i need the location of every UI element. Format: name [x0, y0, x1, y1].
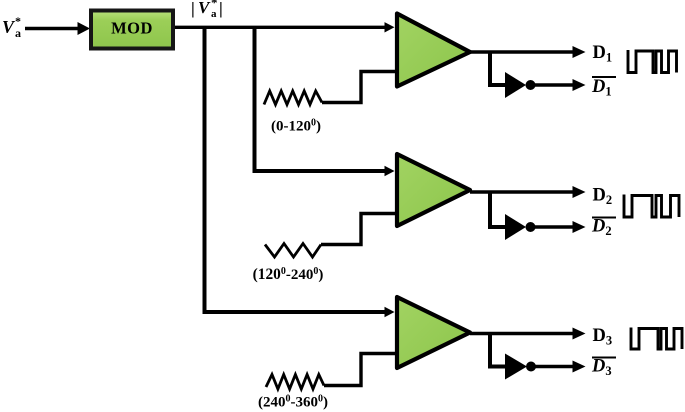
- wire branch to inverter N1: [490, 52, 505, 85]
- svg-text:D2: D2: [593, 186, 613, 208]
- arrowhead into U1: [385, 22, 395, 32]
- carrier source W2 zigzag: [265, 244, 321, 258]
- wire N1 output: [534, 83, 573, 86]
- arrowhead into MOD: [78, 22, 91, 35]
- op-amp U3 comparator: [397, 297, 470, 368]
- arrowhead D1bar: [573, 79, 586, 91]
- svg-text:V: V: [2, 17, 16, 37]
- arrowhead D3: [573, 328, 586, 340]
- wire branch vertical to comparator U2: [255, 27, 386, 171]
- svg-text:*: *: [211, 0, 218, 10]
- waveform icon 1: [628, 50, 677, 73]
- inverter N3: [505, 354, 527, 380]
- node Va* input label: [2, 14, 21, 40]
- wire U2 output D2: [470, 190, 573, 193]
- MOD block: [91, 11, 173, 49]
- label D2bar: [591, 217, 616, 239]
- arrowhead D3bar: [573, 361, 586, 373]
- svg-text:V: V: [198, 0, 211, 17]
- arrowhead D2bar: [573, 221, 586, 233]
- wire MOD output rail: [175, 26, 385, 29]
- wire W1 to U1 lower input: [322, 72, 397, 103]
- op-amp U2 comparator: [397, 154, 470, 226]
- svg-text:MOD: MOD: [111, 19, 153, 38]
- svg-text:(2400-3600): (2400-3600): [258, 394, 328, 411]
- wire branch to inverter N2: [490, 192, 505, 227]
- svg-text:(1200-2400): (1200-2400): [253, 266, 324, 283]
- svg-text:(0-1200): (0-1200): [271, 118, 321, 135]
- wire W3 to U3 lower input: [324, 354, 397, 386]
- carrier source W1 zigzag: [264, 91, 322, 105]
- wire input to MOD: [25, 27, 79, 30]
- svg-text:D3: D3: [593, 326, 613, 348]
- wire trunk vertical to comparator U3: [205, 27, 386, 312]
- wire N2 output: [534, 225, 573, 228]
- op-amp U1 comparator: [397, 14, 470, 87]
- arrowhead into U3: [385, 307, 395, 317]
- svg-text:|: |: [191, 0, 195, 18]
- svg-text:a: a: [15, 26, 21, 40]
- svg-text:D1: D1: [593, 43, 613, 65]
- wire U1 output D1: [470, 50, 573, 53]
- label D3bar: [591, 357, 616, 379]
- inverter N2: [505, 214, 526, 240]
- arrowhead D2: [573, 186, 586, 198]
- arrowhead into U2: [385, 166, 395, 176]
- node |Va*| label: [191, 0, 223, 20]
- svg-text:*: *: [15, 14, 21, 28]
- label D1bar: [591, 77, 616, 99]
- wire N3 output: [535, 365, 573, 368]
- svg-text:D1: D1: [591, 77, 612, 99]
- arrowhead D1: [573, 46, 586, 58]
- wire U3 output D3: [470, 332, 573, 335]
- wire W2 to U2 lower input: [321, 214, 397, 245]
- svg-text:|: |: [219, 0, 223, 18]
- waveform icon 2: [624, 195, 679, 218]
- svg-text:D2: D2: [591, 217, 612, 239]
- waveform icon 3: [631, 328, 682, 350]
- wire branch to inverter N3: [490, 334, 505, 367]
- inverter N1: [505, 72, 526, 98]
- svg-text:D3: D3: [591, 357, 612, 379]
- carrier source W3 zigzag: [266, 375, 324, 390]
